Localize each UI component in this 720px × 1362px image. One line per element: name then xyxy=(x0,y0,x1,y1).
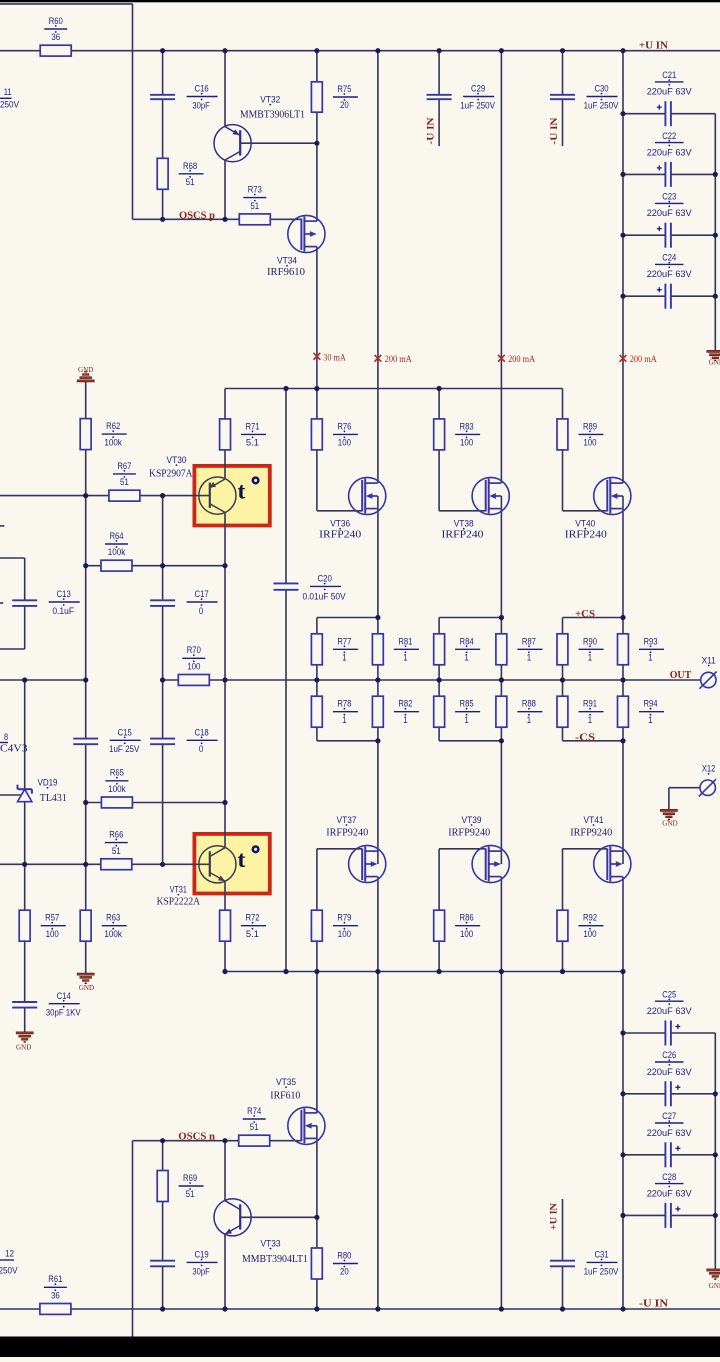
junction OSCS_n / VT33 xyxy=(222,1138,227,1143)
junction filter cap left y296.2 xyxy=(620,294,625,299)
wire top feedback line xyxy=(0,3,133,5)
junction source rail / R72 xyxy=(222,969,227,974)
junction R67 row / col B xyxy=(83,493,88,498)
svg-text:200 mA: 200 mA xyxy=(508,354,535,364)
wire column D C16 top xyxy=(162,51,164,95)
junction filter cap right y1154.8 xyxy=(713,1152,718,1157)
resistor R70 xyxy=(178,675,209,686)
ground top left xyxy=(77,380,94,382)
svg-text:100: 100 xyxy=(583,929,596,940)
resistor R88 xyxy=(496,696,507,727)
transistor VT34 xyxy=(288,215,325,252)
capacitor C17 xyxy=(150,599,175,601)
wire column H upper xyxy=(377,51,379,483)
wire column G R79 xyxy=(316,849,318,972)
svg-text:IRFP9240: IRFP9240 xyxy=(448,827,490,838)
junction -U rail / colL xyxy=(620,1306,625,1311)
svg-text:0.1uF: 0.1uF xyxy=(52,606,74,617)
resistor R60 xyxy=(40,45,71,56)
junction OUT rail / C18 xyxy=(160,677,165,682)
junction R66 row / TL431 xyxy=(22,862,27,867)
svg-text:20: 20 xyxy=(340,100,349,111)
junction R66 row / C18 xyxy=(160,862,165,867)
ground C14 xyxy=(16,1032,33,1034)
wire column E VT30 to VT31 xyxy=(224,512,226,847)
wire column L middle xyxy=(622,509,624,864)
transistor VT35 xyxy=(288,1107,325,1144)
test point 200 mA on column H xyxy=(375,355,382,362)
wire column J middle xyxy=(500,509,502,864)
wire column F C20 bottom xyxy=(285,590,287,972)
junction filter cap right y235.2 xyxy=(713,233,718,238)
wire source join VT37 xyxy=(317,740,378,742)
svg-text:220uF 63V: 220uF 63V xyxy=(647,1188,693,1199)
wire column G R76 xyxy=(316,389,318,511)
ground bottom right xyxy=(707,1269,720,1271)
svg-text:-CS: -CS xyxy=(575,732,596,743)
wire column M bottom group xyxy=(714,1033,716,1269)
wire C27 row xyxy=(623,1154,665,1156)
svg-text:1: 1 xyxy=(403,715,407,726)
resistor R67 xyxy=(109,490,140,501)
wire column G R78 xyxy=(316,680,318,741)
svg-text:1uF 250V: 1uF 250V xyxy=(584,100,619,111)
resistor R81 xyxy=(372,634,383,665)
svg-text:100k: 100k xyxy=(104,437,122,448)
wire column M top group xyxy=(714,114,716,351)
junction R64 row / col B xyxy=(83,563,88,568)
svg-text:30pF: 30pF xyxy=(192,1266,210,1277)
svg-text:1uF 25V: 1uF 25V xyxy=(109,744,140,755)
svg-text:IRFP240: IRFP240 xyxy=(442,529,484,540)
wire VT41 gate bend xyxy=(563,848,608,850)
svg-text:100: 100 xyxy=(460,438,473,449)
wire column H middle xyxy=(377,509,379,864)
wire column D C18 to R66 row xyxy=(162,744,164,864)
svg-text:t: t xyxy=(238,847,246,873)
svg-text:100: 100 xyxy=(338,438,351,449)
capacitor C31 xyxy=(550,1260,575,1262)
svg-text:OUT: OUT xyxy=(670,670,692,681)
wire source join VT36 xyxy=(317,617,378,619)
wire column B C15 to GND xyxy=(85,744,87,973)
wire column K R90 R91 xyxy=(562,618,564,741)
junction VT37 drain top xyxy=(375,738,380,743)
junction VT38 source xyxy=(499,615,504,620)
wire column A C14 to GND xyxy=(24,1008,26,1032)
wire column K R92 xyxy=(562,849,564,972)
wire C28 row xyxy=(623,1214,665,1216)
svg-text:100: 100 xyxy=(460,929,473,940)
wire column E R71 to VT30 xyxy=(224,389,226,479)
junction VT36 source xyxy=(375,615,380,620)
capacitor C19 xyxy=(150,1260,175,1262)
resistor R73 xyxy=(239,214,270,225)
wire column A TL431 branch xyxy=(24,680,26,789)
top border bar xyxy=(0,0,720,2)
svg-text:200 mA: 200 mA xyxy=(630,354,657,364)
resistor R91 xyxy=(557,696,568,727)
wire column A C13 top bend xyxy=(0,557,25,559)
svg-text:51: 51 xyxy=(186,177,195,188)
svg-text:20: 20 xyxy=(340,1267,349,1278)
svg-text:5.1: 5.1 xyxy=(246,438,259,449)
svg-text:IRFP9240: IRFP9240 xyxy=(326,827,368,838)
wire column I C29 top xyxy=(438,51,440,95)
svg-text:KSP2907A: KSP2907A xyxy=(149,468,193,479)
junction OSCS_p / VT32 xyxy=(222,217,227,222)
diode VD19 TL431 xyxy=(18,788,32,790)
resistor R71 xyxy=(220,419,231,450)
test point 30 mA xyxy=(314,353,321,360)
svg-text:220uF 63V: 220uF 63V xyxy=(647,87,693,98)
capacitor C27 xyxy=(664,1142,666,1167)
wire column L upper xyxy=(622,51,624,483)
wire column B GND to C15 xyxy=(85,382,87,739)
svg-text:220uF 63V: 220uF 63V xyxy=(647,1006,693,1017)
svg-text:200 mA: 200 mA xyxy=(385,354,412,364)
svg-text:GND: GND xyxy=(709,358,720,367)
junction filter cap right y174.4 xyxy=(713,172,718,177)
svg-text:36: 36 xyxy=(51,32,60,43)
transistor VT32 xyxy=(214,125,251,162)
test point 200 mA on column L xyxy=(620,355,627,362)
wire column J VT38 source link xyxy=(500,496,502,509)
junction source rail / R92 xyxy=(560,969,565,974)
junction OUT rail / R90 R91 xyxy=(560,677,565,682)
capacitor C14 xyxy=(12,1001,37,1003)
svg-text:30pF: 30pF xyxy=(192,100,210,111)
svg-text:+U IN: +U IN xyxy=(550,1203,560,1230)
junction VT40 source xyxy=(620,615,625,620)
resistor R86 xyxy=(434,910,445,941)
wire C21 row xyxy=(623,113,665,115)
junction +U rail / VT32 xyxy=(222,48,227,53)
svg-text:0: 0 xyxy=(199,744,203,755)
wire column J lower xyxy=(500,877,502,1309)
junction VT39 drain top xyxy=(499,738,504,743)
junction filter cap left y1215.4 xyxy=(620,1213,625,1218)
resistor R66 xyxy=(101,859,132,870)
bottom border bar xyxy=(0,1337,720,1358)
ground X12 xyxy=(660,809,677,811)
svg-text:-U IN: -U IN xyxy=(639,1299,669,1310)
transistor VT30 xyxy=(199,477,236,514)
wire column K C30 stub xyxy=(562,99,564,146)
wire column D OSCS_n to C19 xyxy=(162,1141,164,1261)
wire R64 row xyxy=(86,565,225,567)
transistor VT38 xyxy=(472,477,509,514)
junction VT41 drain top xyxy=(620,738,625,743)
svg-text:OSCS n: OSCS n xyxy=(178,1131,215,1142)
wire left stub y603 xyxy=(0,602,3,604)
resistor R61 xyxy=(40,1304,71,1315)
svg-text:100: 100 xyxy=(583,438,596,449)
wire column D R67 to C17 xyxy=(162,496,164,601)
wire OSCS_n row xyxy=(133,1140,302,1142)
wire column E VT32 top xyxy=(224,51,226,127)
resistor R90 xyxy=(557,634,568,665)
capacitor C22 xyxy=(664,162,666,187)
svg-text:+CS: +CS xyxy=(575,609,595,620)
capacitor C16 xyxy=(150,94,175,96)
junction OUT rail / R81 R82 xyxy=(375,677,380,682)
svg-text:100k: 100k xyxy=(104,929,122,940)
transistor VT36 xyxy=(349,477,386,514)
wire column G R80 xyxy=(316,1217,318,1309)
svg-text:250V: 250V xyxy=(0,1266,18,1277)
resistor R78 xyxy=(311,696,322,727)
svg-text:12: 12 xyxy=(5,1249,14,1260)
wire column D C17 to C18 xyxy=(162,606,164,739)
capacitor C28 xyxy=(664,1203,666,1228)
svg-text:51: 51 xyxy=(112,846,121,857)
wire VT33 base xyxy=(240,1216,317,1218)
svg-text:IRF610: IRF610 xyxy=(270,1090,300,1101)
junction filter cap left y1093.8 xyxy=(620,1091,625,1096)
junction filter cap right y296.2 xyxy=(713,294,718,299)
wire column L VT40 source link xyxy=(622,496,624,509)
transistor VT40 xyxy=(594,477,631,514)
ground top right xyxy=(707,350,720,352)
svg-text:100: 100 xyxy=(338,929,351,940)
svg-text:51: 51 xyxy=(250,1122,259,1133)
wire column I R83 xyxy=(438,389,440,511)
junction source rail / C20 xyxy=(283,969,288,974)
wire column I R84 R85 xyxy=(438,618,440,741)
svg-text:1: 1 xyxy=(342,653,346,664)
svg-text:GND: GND xyxy=(78,365,93,374)
wire VT37 gate bend xyxy=(317,848,362,850)
wire column G R75 VT34 drain xyxy=(316,51,318,221)
junction +U rail / colJ xyxy=(499,48,504,53)
svg-text:-U IN: -U IN xyxy=(427,117,437,144)
svg-text:C4V3: C4V3 xyxy=(0,744,27,755)
svg-text:KSP2222A: KSP2222A xyxy=(157,897,201,908)
test point 200 mA on column J xyxy=(498,355,505,362)
junction R64 row / C17 xyxy=(160,563,165,568)
junction source rail / VT37 xyxy=(375,969,380,974)
wire column L lower xyxy=(622,877,624,1309)
ground mid left xyxy=(77,973,94,975)
junction OSCS_p / C16 xyxy=(160,217,165,222)
svg-text:250V: 250V xyxy=(0,100,20,111)
svg-text:GND: GND xyxy=(16,1043,31,1052)
transistor VT41 xyxy=(594,845,631,882)
svg-text:30 mA: 30 mA xyxy=(323,353,346,363)
thermal box VT31 xyxy=(194,834,269,894)
svg-text:100: 100 xyxy=(46,929,59,940)
resistor R77 xyxy=(311,634,322,665)
resistor R63 xyxy=(80,910,91,941)
resistor R62 xyxy=(80,419,91,450)
junction OSCS_n / C19 xyxy=(160,1138,165,1143)
svg-text:11: 11 xyxy=(4,87,12,98)
svg-text:0: 0 xyxy=(199,606,203,617)
junction OUT rail / VT31 branch xyxy=(222,677,227,682)
connector X12 xyxy=(700,780,715,795)
junction bias rail / VT34 xyxy=(314,386,319,391)
resistor R94 xyxy=(618,696,629,727)
capacitor C20 xyxy=(274,582,299,584)
wire column E VT32 to OSCS_p xyxy=(224,160,226,219)
wire OUT rail xyxy=(163,679,701,681)
junction filter cap left y113.7 xyxy=(620,111,625,116)
wire column K R89 xyxy=(562,389,564,511)
capacitor C29 xyxy=(427,94,452,96)
svg-text:100k: 100k xyxy=(108,784,126,795)
capacitor C15 xyxy=(73,738,98,740)
svg-text:51: 51 xyxy=(250,201,259,212)
junction -U rail / C31 xyxy=(560,1306,565,1311)
resistor R79 xyxy=(311,910,322,941)
junction -U rail / R80 xyxy=(314,1306,319,1311)
junction +U rail / C16 xyxy=(160,48,165,53)
junction bias rail / C20 xyxy=(283,386,288,391)
resistor R82 xyxy=(372,696,383,727)
svg-text:100k: 100k xyxy=(108,547,126,558)
svg-text:1: 1 xyxy=(403,653,407,664)
junction OUT rail / R93 R94 xyxy=(620,677,625,682)
transistor VT31 xyxy=(199,846,236,883)
svg-text:MMBT3906LT1: MMBT3906LT1 xyxy=(240,109,305,120)
capacitor C23 xyxy=(664,223,666,248)
wire C24 row xyxy=(623,295,665,297)
wire VT40 gate bend xyxy=(563,510,608,512)
svg-text:220uF 63V: 220uF 63V xyxy=(647,1128,693,1139)
svg-text:GND: GND xyxy=(79,983,94,992)
capacitor C25 xyxy=(664,1021,666,1046)
junction R66 row / col B xyxy=(83,862,88,867)
wire C22 row xyxy=(623,173,665,175)
junction OUT rail / R84 R85 xyxy=(437,677,442,682)
junction VT32 base / R75 xyxy=(314,141,319,146)
junction filter cap left y1033 xyxy=(620,1030,625,1035)
junction -U rail / VT33 xyxy=(222,1306,227,1311)
wire column E VT33 to -U xyxy=(224,1234,226,1309)
junction -U rail / colH xyxy=(375,1306,380,1311)
svg-text:1uF 250V: 1uF 250V xyxy=(584,1266,619,1277)
wire R67 row xyxy=(0,495,210,497)
junction +U rail / colL xyxy=(620,48,625,53)
junction OUT rail / R77 R78 xyxy=(314,677,319,682)
resistor R84 xyxy=(434,634,445,665)
junction R67 row / C17 xyxy=(160,493,165,498)
wire column G VT35 drain xyxy=(316,972,318,1114)
wire bias node left segment xyxy=(0,679,86,681)
resistor R83 xyxy=(434,419,445,450)
wire source join VT41 -CS xyxy=(563,740,624,742)
wire VT32 base xyxy=(240,142,317,144)
junction R64 row / VT30 xyxy=(222,563,227,568)
junction bias left / col B xyxy=(83,677,88,682)
wire column F C20 top xyxy=(285,389,287,584)
svg-text:220uF 63V: 220uF 63V xyxy=(647,1067,693,1078)
svg-text:30pF 1KV: 30pF 1KV xyxy=(46,1008,81,1019)
junction +U rail / R75 xyxy=(314,48,319,53)
capacitor C26 xyxy=(664,1081,666,1106)
capacitor C21 xyxy=(664,101,666,126)
svg-text:IRFP240: IRFP240 xyxy=(319,529,361,540)
svg-text:51: 51 xyxy=(120,477,129,488)
svg-text:51: 51 xyxy=(186,1189,195,1200)
wire column D C16 to OSCS_p xyxy=(162,99,164,219)
resistor R76 xyxy=(311,419,322,450)
resistor R74 xyxy=(239,1135,270,1146)
wire +U IN rail xyxy=(0,50,720,52)
junction source rail / VT41 xyxy=(620,969,625,974)
wire column G VT34 source to bias rail xyxy=(316,247,318,389)
svg-text:100: 100 xyxy=(187,662,200,673)
svg-text:MMBT3904LT1: MMBT3904LT1 xyxy=(242,1254,308,1265)
junction VT33 base / R80 xyxy=(314,1215,319,1220)
junction R65 row / col B xyxy=(83,800,88,805)
wire OSCS_p vertical from top xyxy=(132,4,134,219)
svg-text:1: 1 xyxy=(527,653,531,664)
wire column I C29 stub xyxy=(438,99,440,146)
svg-text:IRFP240: IRFP240 xyxy=(565,529,607,540)
junction filter cap right y1215.4 xyxy=(713,1213,718,1218)
transistor VT39 xyxy=(472,845,509,882)
svg-text:220uF 63V: 220uF 63V xyxy=(647,147,693,158)
wire R65 row xyxy=(86,802,225,804)
capacitor C24 xyxy=(664,284,666,309)
resistor R80 xyxy=(311,1248,322,1279)
wire R66 row / VT31 base xyxy=(0,863,210,865)
wire C23 row xyxy=(623,234,665,236)
resistor R69 xyxy=(157,1171,168,1202)
junction filter cap left y174.4 xyxy=(620,172,625,177)
junction -U rail / colJ xyxy=(499,1306,504,1311)
wire column D C19 to -U xyxy=(162,1266,164,1309)
wire column G R77 xyxy=(316,618,318,681)
wire source join VT38 xyxy=(439,617,501,619)
svg-text:1: 1 xyxy=(342,715,346,726)
resistor R68 xyxy=(157,158,168,189)
wire X12 lead xyxy=(669,787,700,789)
wire VT38 gate bend xyxy=(439,510,486,512)
svg-text:-U IN: -U IN xyxy=(550,117,560,144)
junction +U rail / colH xyxy=(375,48,380,53)
resistor R57 xyxy=(19,910,30,941)
svg-text:IRFP9240: IRFP9240 xyxy=(570,827,612,838)
resistor R92 xyxy=(557,910,568,941)
wire C26 row xyxy=(623,1093,665,1095)
transistor VT33 xyxy=(214,1199,251,1236)
wire gate bias rail xyxy=(225,388,563,390)
junction source rail / VT39 xyxy=(499,969,504,974)
junction OUT rail / R87 R88 xyxy=(499,677,504,682)
wire column E VT31 to rail xyxy=(224,881,226,971)
wire column E VT33 top xyxy=(224,1141,226,1201)
junction source rail / R79 VT35 xyxy=(314,969,319,974)
svg-text:OSCS p: OSCS p xyxy=(179,210,215,221)
capacitor C13 xyxy=(12,599,37,601)
resistor R87 xyxy=(496,634,507,665)
junction filter cap right y1093.8 xyxy=(713,1091,718,1096)
wire column H VT36 source link xyxy=(377,496,379,509)
junction filter cap left y235.2 xyxy=(620,233,625,238)
wire column K C31 stub xyxy=(562,1199,564,1261)
resistor R93 xyxy=(618,634,629,665)
wire column J upper xyxy=(500,51,502,483)
svg-text:1: 1 xyxy=(648,715,652,726)
capacitor C30 xyxy=(550,94,575,96)
junction source rail / R86 xyxy=(437,969,442,974)
svg-text:GND: GND xyxy=(662,818,677,827)
junction -U rail / C19 xyxy=(160,1306,165,1311)
junction R65 row / VT31 xyxy=(222,800,227,805)
